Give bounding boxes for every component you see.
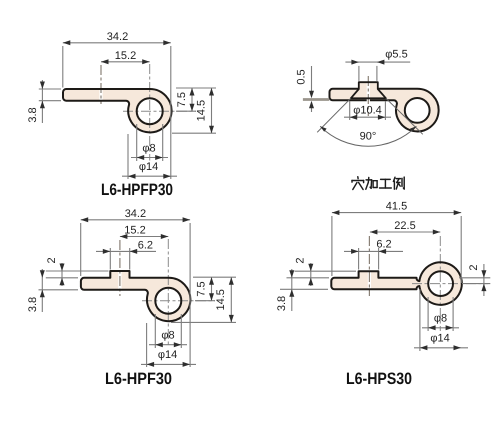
dimension 2 (D left) xyxy=(295,270,357,272)
svg-text:14.5: 14.5 xyxy=(195,100,207,121)
svg-text:22.5: 22.5 xyxy=(394,220,415,232)
svg-text:2: 2 xyxy=(295,257,307,263)
dimension 15.2 (C) xyxy=(120,236,168,238)
svg-text:3.8: 3.8 xyxy=(27,107,39,122)
part L6-HPS30 fill xyxy=(331,262,462,305)
svg-text:6.2: 6.2 xyxy=(376,239,391,251)
svg-text:φ10.4: φ10.4 xyxy=(353,105,382,117)
svg-text:φ14: φ14 xyxy=(158,349,177,361)
svg-text:6.2: 6.2 xyxy=(138,239,153,251)
centerline A horizontal xyxy=(123,110,196,112)
dimension phi8 (D) xyxy=(427,297,429,331)
svg-text:34.2: 34.2 xyxy=(107,31,128,43)
dimension phi8 (C) xyxy=(154,314,156,348)
svg-text:7.5: 7.5 xyxy=(195,281,207,296)
dimension 3.8 (C) xyxy=(39,289,79,291)
dimension 3.8 (A) xyxy=(39,88,61,90)
centerline D vertical xyxy=(439,236,441,331)
part L6-HPS30 outline xyxy=(331,262,462,305)
svg-text:L6-HPS30: L6-HPS30 xyxy=(346,370,412,388)
dimension 2 (D right) xyxy=(459,277,490,279)
arc arrow left xyxy=(320,126,326,132)
part L6-HPFP30 hole xyxy=(137,98,163,124)
dimension phi10.4 xyxy=(349,101,351,120)
90 degree arc xyxy=(320,126,416,146)
svg-text:14.5: 14.5 xyxy=(215,289,227,310)
svg-text:3.8: 3.8 xyxy=(27,297,39,312)
part L6-HPS30 hole xyxy=(428,271,453,296)
part L6-HPFP30 fill xyxy=(63,89,172,132)
dimension 34.2 (A) xyxy=(62,46,64,88)
dimension phi5.5 xyxy=(358,66,360,81)
label hole machining example (kanji) xyxy=(352,177,404,190)
dimension 0.5 (B) xyxy=(303,98,329,101)
centerline C horizontal xyxy=(142,300,215,302)
part side view outline xyxy=(330,89,439,132)
dimension 14.5 (C) xyxy=(171,321,236,323)
part L6-HPF30 fill xyxy=(81,271,190,321)
dimension phi14 (D) xyxy=(419,289,421,351)
centerline A hole casing xyxy=(99,86,102,104)
dimension phi8 (A) xyxy=(136,124,138,161)
dimension 7.5 (C) xyxy=(193,276,236,278)
svg-text:90°: 90° xyxy=(360,131,377,143)
svg-text:0.5: 0.5 xyxy=(296,69,308,84)
dimension 6.2 (D) xyxy=(358,248,360,270)
svg-text:φ8: φ8 xyxy=(434,313,447,325)
part L6-HPF30 hole xyxy=(155,288,181,314)
svg-text:φ14: φ14 xyxy=(430,333,449,345)
90 degree cone lines xyxy=(317,98,351,132)
part side view hole xyxy=(405,98,430,123)
svg-text:34.2: 34.2 xyxy=(125,208,146,220)
svg-text:2: 2 xyxy=(468,264,480,270)
part side view fill xyxy=(330,89,439,132)
centerline A hole position xyxy=(100,65,102,104)
dimension phi14 (C) xyxy=(146,323,148,367)
svg-text:7.5: 7.5 xyxy=(176,92,188,107)
centerline A vertical xyxy=(149,64,151,161)
dimension phi14 (A) xyxy=(127,134,129,179)
centerline D horizontal xyxy=(412,283,488,285)
svg-text:φ8: φ8 xyxy=(161,330,174,342)
dimension 7.5 (A) xyxy=(176,87,216,89)
dimension 3.8 (D) xyxy=(287,277,295,279)
svg-text:φ5.5: φ5.5 xyxy=(385,48,407,60)
svg-text:15.2: 15.2 xyxy=(115,50,136,62)
centerline countersink xyxy=(367,76,369,116)
centerline countersink casing xyxy=(367,83,370,112)
centerline C tab xyxy=(119,240,121,296)
svg-text:2: 2 xyxy=(46,257,58,263)
part L6-HPF30 outline xyxy=(81,271,190,321)
dimension 15.2 (A) xyxy=(101,61,150,63)
dimension 34.2 (C) xyxy=(80,223,82,276)
svg-text:41.5: 41.5 xyxy=(386,201,407,213)
svg-text:3.8: 3.8 xyxy=(276,296,288,311)
dimension 41.5 xyxy=(331,216,333,276)
arc arrow right xyxy=(410,126,416,132)
centerline C tab casing xyxy=(118,268,121,293)
centerline D tab xyxy=(368,236,370,296)
dimension 6.2 (C) xyxy=(109,248,111,270)
svg-text:φ14: φ14 xyxy=(139,161,158,173)
countersink profile xyxy=(351,82,386,98)
svg-text:L6-HPF30: L6-HPF30 xyxy=(105,370,172,388)
svg-text:L6-HPFP30: L6-HPFP30 xyxy=(101,181,173,199)
centerline C vertical xyxy=(167,239,169,347)
dimension 14.5 (A) xyxy=(172,132,216,134)
dimension 22.5 xyxy=(370,231,440,233)
svg-text:15.2: 15.2 xyxy=(124,225,145,237)
part L6-HPFP30 outline xyxy=(63,89,172,132)
dimension 2 (C) xyxy=(46,270,109,272)
centerline D tab casing xyxy=(368,268,371,293)
svg-text:φ8: φ8 xyxy=(142,142,155,154)
